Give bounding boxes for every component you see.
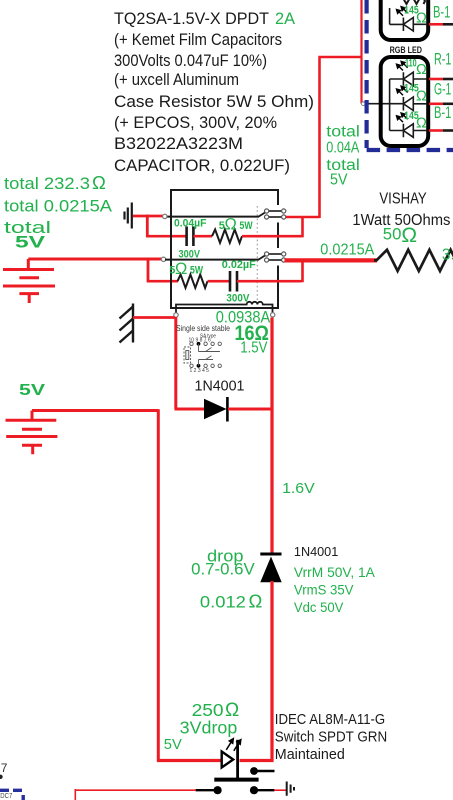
svg-text:300V: 300V xyxy=(226,293,250,305)
relay coil pin 6 circle xyxy=(174,313,178,317)
LED D3 emission arrows xyxy=(226,739,241,751)
wire ground G2 to relay coil pin 6 xyxy=(133,316,175,319)
switch SW1 lower-left contact dot xyxy=(214,786,222,794)
svg-text:300Volts 0.047uF 10%): 300Volts 0.047uF 10%) xyxy=(114,51,267,70)
svg-text:Ω: Ω xyxy=(92,172,106,193)
svg-text:50: 50 xyxy=(383,226,402,244)
bottom-left fragment: dot xyxy=(0,775,3,779)
battery B2 5V (left middle) xyxy=(6,411,58,455)
switch SW1 upper contact lead xyxy=(254,770,275,772)
wire pole1 output riser to LED boxes xyxy=(318,57,361,218)
svg-text:Case Resistor 5W 5 Ohm): Case Resistor 5W 5 Ohm) xyxy=(114,92,314,111)
U2 internal bus wire xyxy=(390,8,404,24)
svg-text:Ω: Ω xyxy=(225,216,237,234)
capacitor C2 0.02uF xyxy=(230,271,237,292)
svg-text:B-1: B-1 xyxy=(434,103,451,122)
micro-diagram: relay SA type pinout xyxy=(184,342,221,368)
svg-text:DC7: DC7 xyxy=(0,791,12,800)
U3 LED R (triangle+bar) xyxy=(403,72,427,86)
RGB LED package U3 xyxy=(381,57,429,146)
text IDEC block xyxy=(275,711,387,763)
svg-text:G-1: G-1 xyxy=(434,80,451,99)
wire coil pin6 down to diode D1 anode xyxy=(174,317,177,409)
LED D3 (green pilot) xyxy=(222,740,238,781)
ground G3 (earth, small, bottom-right) xyxy=(287,782,294,796)
relay pin 10 circle xyxy=(163,214,167,218)
wire R2 to C2 xyxy=(208,280,231,283)
svg-text:Ω: Ω xyxy=(175,260,187,278)
svg-text:TQ2SA-1.5V-X DPDT: TQ2SA-1.5V-X DPDT xyxy=(114,9,269,28)
U3 LED G arrows xyxy=(397,86,408,95)
svg-text:VISHAY: VISHAY xyxy=(379,191,426,208)
relay pole2 contact NC xyxy=(265,258,286,262)
wire U2 B out (red stub + black) xyxy=(429,23,443,26)
wire C2 to pole2 output riser xyxy=(237,260,303,282)
svg-text:B32022A3223M: B32022A3223M xyxy=(114,134,243,153)
relay coil L1 xyxy=(176,302,273,313)
wire drop to snubber row 2 xyxy=(147,258,150,281)
svg-text:VrrM 50V, 1A: VrrM 50V, 1A xyxy=(294,565,375,580)
svg-text:0.7-0.6V: 0.7-0.6V xyxy=(191,561,255,579)
svg-text:Ω: Ω xyxy=(401,224,417,247)
switch SW1 lower-right lead xyxy=(254,789,275,791)
svg-text:2A: 2A xyxy=(275,9,296,28)
svg-text:Ω: Ω xyxy=(249,591,263,612)
svg-text:B-1: B-1 xyxy=(433,3,450,22)
svg-text:1.6V: 1.6V xyxy=(282,480,315,497)
svg-text:1N4001: 1N4001 xyxy=(195,379,245,395)
svg-text:CAPACITOR, 0.022UF): CAPACITOR, 0.022UF) xyxy=(114,156,290,175)
svg-text:R-1: R-1 xyxy=(434,50,451,69)
svg-text:300V: 300V xyxy=(179,249,201,261)
svg-text:total: total xyxy=(326,124,360,141)
wire D1 cathode to node K xyxy=(228,408,273,411)
U2 internal resistor (partial) xyxy=(403,0,425,4)
svg-text:0.04µF: 0.04µF xyxy=(174,218,207,230)
relay pole1 contact NO xyxy=(265,209,286,213)
dashed boundary (blue) of LED panel xyxy=(367,0,453,150)
wire C1 to R1 xyxy=(193,235,212,238)
wire pole1 NC to LED supply riser xyxy=(286,216,319,219)
svg-text:7: 7 xyxy=(1,761,8,775)
ground G1 (earth, rotated, top-left) xyxy=(125,203,132,229)
svg-text:Ω: Ω xyxy=(416,116,427,132)
svg-text:Ω: Ω xyxy=(416,89,427,105)
svg-text:0.0215A: 0.0215A xyxy=(320,242,375,259)
svg-text:Switch SPDT GRN: Switch SPDT GRN xyxy=(275,729,387,746)
RGB LED package U2 (top, cut off) xyxy=(381,0,429,40)
resistor R2 5ohm 5W xyxy=(178,275,208,288)
svg-text:RGB LED: RGB LED xyxy=(390,45,423,56)
relay U1 outline TQ2SA xyxy=(171,190,278,308)
svg-text:Vdc 50V: Vdc 50V xyxy=(294,600,344,615)
wire battery B2 to bottom LED branch xyxy=(32,409,158,762)
svg-text:110: 110 xyxy=(405,58,417,70)
wire battery B2 branch to LED anode xyxy=(157,759,222,762)
svg-text:Maintained: Maintained xyxy=(275,746,345,763)
svg-text:0.012: 0.012 xyxy=(200,594,246,612)
svg-text:IDEC AL8M-A11-G: IDEC AL8M-A11-G xyxy=(275,711,385,728)
relay pole2 lever xyxy=(259,254,268,259)
svg-text:(+ uxcell Aluminum: (+ uxcell Aluminum xyxy=(114,70,239,89)
relay labels xyxy=(169,216,256,305)
node junction LED box2 common xyxy=(364,103,404,105)
switch SW1 upper contact dot xyxy=(250,767,258,775)
TEXT LAYER xyxy=(114,9,314,175)
wire ground G1 to relay pin 10 (pole1 common) xyxy=(133,215,165,218)
svg-text:5V: 5V xyxy=(15,233,46,252)
svg-text:Single side stable: Single side stable xyxy=(176,324,230,333)
switch SW1 lower-left lead xyxy=(196,789,218,791)
wire switch to left (thin) xyxy=(75,789,196,800)
relay pin 1 circle xyxy=(161,257,165,261)
wire pole2 NC to VISHAY resistor (bus) xyxy=(285,258,378,262)
svg-text:total 0.0215A: total 0.0215A xyxy=(4,197,113,216)
svg-text:1N4001: 1N4001 xyxy=(294,544,338,559)
wire snubber row1 left xyxy=(146,235,186,238)
U3 LED R arrows xyxy=(397,61,408,70)
relay pole1 contact NC xyxy=(265,215,286,219)
wire drop to snubber row 1 xyxy=(146,215,149,237)
wire coil pin5 down through node K to diode D2 xyxy=(270,318,273,555)
capacitor C1 0.04uF xyxy=(187,227,194,247)
svg-text:3Vdrop: 3Vdrop xyxy=(180,718,238,738)
bottom-left fragment: dashed box DC7 xyxy=(0,790,25,800)
text right totals block xyxy=(326,124,360,189)
relay pole2 common wire xyxy=(165,259,259,261)
wire D2 to bottom LED row xyxy=(240,581,274,762)
wire LED box supply vertical (thin) xyxy=(362,0,365,104)
svg-text:5V: 5V xyxy=(164,737,182,753)
relay pole1 lever xyxy=(259,211,268,216)
svg-text:5V: 5V xyxy=(19,382,45,399)
text D2 specs xyxy=(294,565,375,615)
svg-text:Ω: Ω xyxy=(416,11,427,27)
svg-text:0.02µF: 0.02µF xyxy=(222,259,256,271)
svg-text:Ω: Ω xyxy=(416,62,427,78)
wire switch to ground G3 (thin) xyxy=(274,789,286,791)
diode D1 1N4001 xyxy=(204,397,227,422)
wire battery B1 top to relay pin 1 (pole2 common) xyxy=(28,258,163,261)
relay pole2 contact NO xyxy=(265,252,286,256)
wire snubber row2 left xyxy=(147,280,178,283)
box edge gaps at contacts xyxy=(275,205,281,223)
relay pole1 common wire xyxy=(166,216,259,218)
relay coil pin 5 circle xyxy=(271,313,275,317)
U2 LED B arrows xyxy=(397,7,408,16)
relay mechanical link (dotted) xyxy=(256,206,258,302)
switch SW1 lower-right contact dot xyxy=(250,786,258,794)
svg-text:1 2 3 4 5: 1 2 3 4 5 xyxy=(190,368,210,374)
svg-text:5W: 5W xyxy=(190,265,203,277)
text VISHAY xyxy=(352,191,450,230)
svg-text:(+ EPCOS, 300V, 20%: (+ EPCOS, 300V, 20% xyxy=(114,113,277,132)
U3 LED B arrows xyxy=(397,113,408,122)
svg-text:10 9 8 7 6: 10 9 8 7 6 xyxy=(189,338,211,344)
battery B1 5V (top-left) xyxy=(3,259,55,303)
svg-text:total 232.3: total 232.3 xyxy=(4,174,90,193)
wire to D1 anode xyxy=(175,408,205,411)
svg-text:VrmS 35V: VrmS 35V xyxy=(294,583,354,598)
U3 LED G (triangle+bar) xyxy=(403,97,427,111)
U3 LED B (triangle+bar) xyxy=(403,124,427,138)
wire U3 G out xyxy=(429,103,443,106)
resistor R1 5ohm 5W xyxy=(212,230,242,243)
svg-text:0.04A: 0.04A xyxy=(326,140,360,157)
wire R1 to pole1 output xyxy=(242,217,303,238)
svg-text:1.5V: 1.5V xyxy=(240,340,268,357)
top pins xyxy=(190,342,193,345)
diode D2 1N4001 (vertical) xyxy=(260,554,281,582)
bottom pins xyxy=(190,364,193,367)
coil dashed box xyxy=(184,347,191,363)
svg-text:(+ Kemet Film Capacitors: (+ Kemet Film Capacitors xyxy=(114,30,282,49)
svg-text:3.1: 3.1 xyxy=(442,247,453,264)
svg-text:5V: 5V xyxy=(330,172,348,189)
ground G2 (chassis, rotated) xyxy=(120,304,134,343)
U2 LED B (triangle+bar) xyxy=(403,18,427,32)
wire U3 B out xyxy=(429,129,443,132)
resistor R3 VISHAY 50 ohm xyxy=(374,250,453,271)
wire U3 R out xyxy=(429,78,443,81)
switch SW1 actuator bar xyxy=(214,778,258,782)
svg-text:5W: 5W xyxy=(240,220,253,232)
U3 internal bus wire xyxy=(390,79,404,131)
